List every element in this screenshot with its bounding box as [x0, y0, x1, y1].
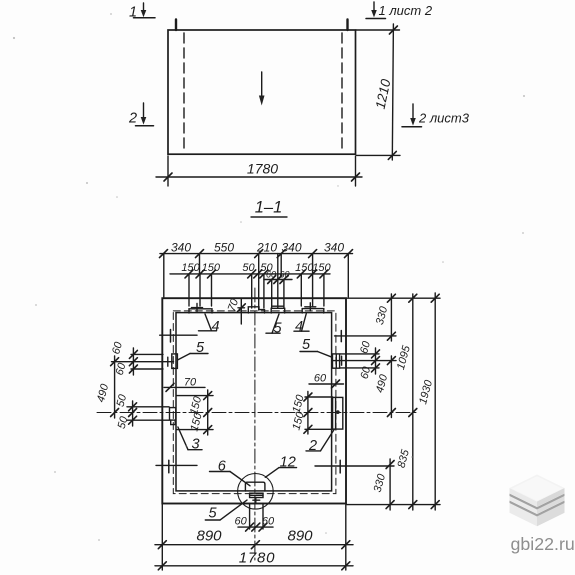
left wall anchor cross lower — [156, 464, 197, 466]
top view: left dashed stiffener line — [183, 33, 185, 151]
plate A anchor cross — [192, 307, 203, 309]
svg-text:330: 330 — [372, 472, 389, 494]
bottom dim line 890/890 — [155, 544, 353, 546]
extension lines to plate C — [271, 280, 273, 309]
svg-text:2: 2 — [308, 438, 317, 454]
plan view: hidden contour dashed rectangle — [173, 311, 336, 494]
svg-text:60: 60 — [279, 270, 289, 280]
top view: panel outline — [168, 30, 356, 154]
extension line x258.7 long — [258, 254, 260, 310]
plate 2 anchor dot — [336, 410, 340, 414]
embedded plate C (top edge centre, item 5) — [271, 308, 285, 313]
svg-text:1210: 1210 — [373, 77, 394, 110]
svg-text:150: 150 — [202, 262, 221, 274]
section marker 2 лист 3 (right) — [402, 104, 422, 127]
inner dim column 150/150 (right) — [307, 392, 309, 435]
extension lines to plate D — [300, 274, 302, 306]
leader item 12 — [279, 467, 297, 469]
plan view: outer panel outline — [162, 298, 346, 503]
svg-text:12: 12 — [280, 455, 296, 471]
row1 tick at panel left — [160, 250, 168, 258]
bottom slab front band — [510, 503, 565, 526]
svg-text:60: 60 — [110, 340, 125, 356]
svg-text:490: 490 — [374, 372, 391, 394]
svg-text:2 лист3: 2 лист3 — [418, 111, 470, 126]
right wall anchor cross lower — [315, 465, 394, 467]
bottom dim line 1780 — [155, 565, 353, 567]
right extension line top edge — [347, 297, 441, 299]
row1 tick 550/210 — [255, 250, 263, 258]
extension lines to plate B — [251, 274, 253, 308]
dim 70 tick (top edge) — [237, 304, 245, 312]
svg-text:550: 550 — [214, 241, 234, 255]
svg-text:60: 60 — [358, 339, 373, 355]
plate D anchor cross — [305, 306, 316, 308]
bottom dim line 60/60 — [238, 526, 273, 528]
svg-text:1: 1 — [129, 5, 137, 21]
svg-text:5: 5 — [273, 321, 282, 337]
svg-text:6: 6 — [218, 459, 227, 475]
svg-text:340: 340 — [171, 241, 191, 255]
svg-text:5: 5 — [302, 337, 311, 353]
recess item 6 (bottom edge) — [245, 482, 265, 491]
extension line x281.2 — [280, 254, 282, 276]
top dim row 1 line — [160, 253, 353, 255]
dim 70 (left edge) line — [164, 386, 205, 388]
right dim column 330 top / 490 — [390, 294, 392, 341]
dim 60 (right edge) line — [309, 383, 344, 385]
extension line x199.5 — [199, 254, 201, 274]
top slab sides — [510, 488, 565, 507]
embedded plate 5 (right edge) — [333, 354, 340, 368]
row2 ticks left 150/150 — [185, 270, 193, 278]
leader item 4 left — [205, 314, 212, 331]
svg-text:890: 890 — [196, 528, 222, 545]
svg-text:1 лист 2: 1 лист 2 — [379, 3, 433, 18]
dimension 1780 (top view bottom) — [156, 156, 362, 186]
extension lines to plate A — [188, 274, 190, 306]
svg-text:1–1: 1–1 — [255, 199, 283, 217]
row1 tick at panel right — [345, 250, 353, 258]
svg-text:50: 50 — [242, 262, 255, 274]
row1 tick 340/550 — [196, 250, 204, 258]
left extension lines for 50/50 — [127, 406, 169, 408]
section marker 2 (left) — [136, 103, 154, 126]
svg-text:gbi22.ru: gbi22.ru — [511, 534, 575, 554]
leader item 6 — [210, 471, 231, 473]
right extension lines for 60/60 — [340, 353, 379, 355]
svg-text:340: 340 — [324, 241, 344, 255]
row1 tick 340/340 — [309, 250, 317, 258]
extension line panel right corner — [347, 254, 349, 297]
left dim column 50/50 — [132, 401, 134, 426]
svg-text:150: 150 — [290, 410, 307, 432]
svg-text:5: 5 — [196, 340, 205, 356]
svg-text:60: 60 — [266, 270, 276, 280]
leader item 5 right — [300, 351, 318, 353]
svg-text:835: 835 — [396, 448, 413, 470]
top dim row 2 line — [170, 273, 330, 275]
leader item 5 top — [272, 314, 279, 333]
right dim column 60/60 — [375, 348, 377, 374]
extension lines for 60/60 bottom — [249, 504, 251, 530]
embedded plate A (top edge left) — [189, 309, 212, 313]
top slab top face — [510, 475, 565, 502]
embedded plate item 5 (bottom) — [250, 493, 263, 497]
svg-text:5: 5 — [208, 506, 217, 522]
embedded plate D (top edge right) — [302, 309, 324, 313]
embedded plate 2 (right edge lower) — [333, 397, 343, 429]
svg-text:150: 150 — [312, 262, 331, 274]
svg-text:60: 60 — [359, 365, 374, 381]
svg-text:60: 60 — [262, 516, 275, 528]
row2 ticks right 150/150 — [297, 270, 305, 278]
extension lines from plan corners down — [161, 504, 163, 570]
leader item 2 — [321, 429, 335, 451]
right dim column 330 bottom — [389, 459, 391, 510]
svg-text:1095: 1095 — [395, 344, 413, 372]
svg-text:890: 890 — [287, 528, 313, 545]
top dim row 3 line 60/60 — [264, 279, 292, 281]
dim 70 extension line (top edge) — [240, 299, 242, 324]
leader item 5 bottom — [205, 519, 220, 521]
section marker 1 лист 2 (top right) — [366, 2, 386, 19]
right dim column 1930 — [434, 293, 436, 510]
left wall anchor cross upper — [160, 334, 197, 336]
svg-text:4: 4 — [295, 319, 303, 335]
middle slab front band — [510, 496, 565, 514]
svg-text:70: 70 — [184, 377, 197, 389]
left extension lines for 60/60 — [131, 353, 163, 355]
leader item 5 left — [190, 353, 208, 355]
svg-text:1780: 1780 — [247, 161, 278, 177]
svg-text:3: 3 — [191, 437, 199, 453]
embedded plate 3 (left edge lower) — [170, 408, 176, 421]
section marker 1 (top left) — [134, 3, 156, 18]
svg-text:330: 330 — [374, 304, 391, 326]
svg-text:60: 60 — [114, 361, 129, 377]
svg-text:4: 4 — [211, 319, 219, 335]
right extension line bottom edge — [347, 504, 441, 506]
plan view: horizontal centreline — [97, 412, 418, 414]
left dim column 490 — [114, 356, 116, 418]
top view: left lifting loop tick — [175, 20, 177, 31]
bottom plate anchor cross — [253, 499, 260, 501]
top view: centre down arrow — [259, 72, 265, 106]
dark sliver 2 — [510, 501, 565, 517]
plan view: vertical centreline — [254, 288, 256, 560]
leader item 3 — [178, 427, 188, 450]
row2 ticks centre 50/50 — [248, 270, 256, 278]
svg-text:1780: 1780 — [239, 550, 276, 567]
right dim column 1095 / 835 — [412, 294, 414, 510]
embedded plate 5 (left edge) — [172, 354, 178, 369]
dimension 1210 (top view right) — [356, 24, 400, 160]
gbi22.ru logo icon: stacked slabs — [510, 475, 565, 527]
svg-text:50: 50 — [115, 392, 130, 408]
right extension lines for 150/150 — [305, 396, 333, 398]
row1 tick 210/340 — [277, 250, 285, 258]
right wall anchor cross upper — [335, 335, 397, 337]
extension line panel left corner — [163, 254, 165, 297]
svg-text:60: 60 — [234, 516, 247, 528]
leader item 4 right — [302, 314, 307, 332]
inner dim column 150/150 (left) — [177, 395, 214, 397]
svg-text:150: 150 — [181, 262, 200, 274]
svg-text:210: 210 — [256, 241, 277, 255]
plate 5 left anchor cross — [163, 361, 174, 363]
dark sliver 1 — [510, 494, 565, 510]
detail circle (bottom centre) — [238, 474, 274, 510]
svg-text:150: 150 — [290, 393, 307, 415]
svg-text:60: 60 — [314, 373, 327, 385]
svg-text:2: 2 — [128, 111, 137, 127]
svg-text:340: 340 — [281, 241, 301, 255]
svg-text:1930: 1930 — [417, 378, 435, 406]
top view: right dashed stiffener line — [341, 33, 343, 151]
top view: right lifting loop tick — [346, 20, 348, 31]
plan view: inner opening outline — [176, 313, 332, 491]
plate 5 right anchor cross — [333, 360, 347, 362]
left dim column 60/60 — [132, 348, 134, 375]
svg-text:490: 490 — [95, 382, 112, 404]
embedded plate B (top edge centre-left) — [248, 307, 264, 313]
